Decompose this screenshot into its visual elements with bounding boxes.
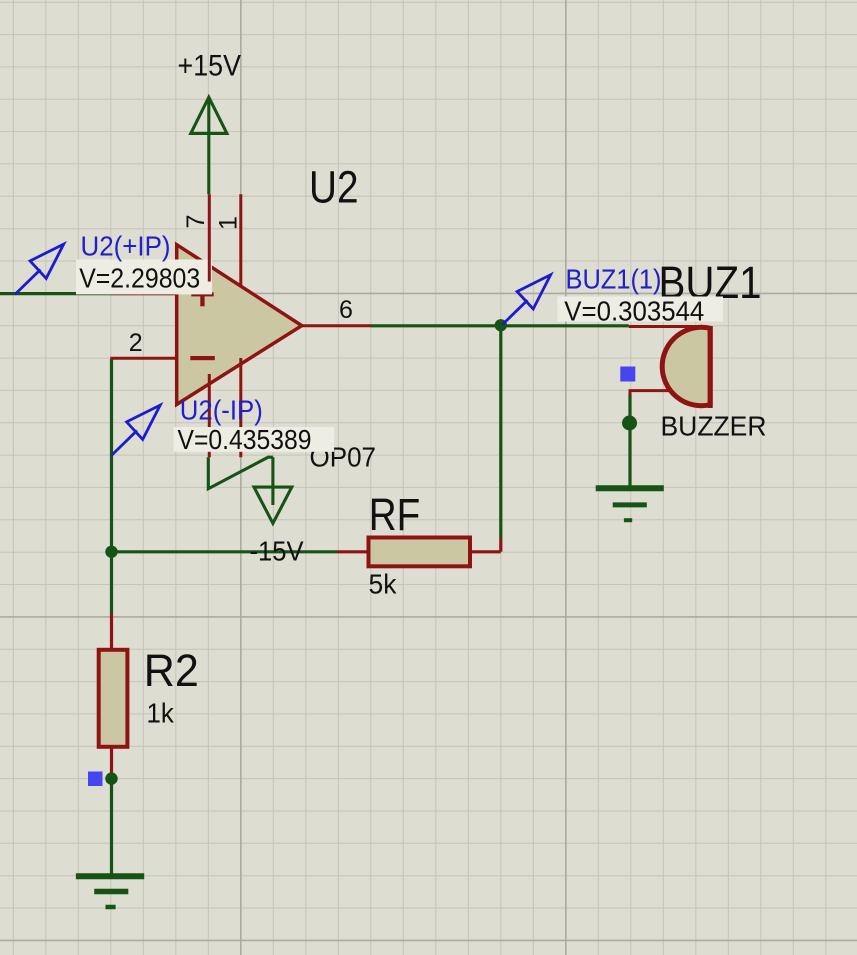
probe label U2(+IP) <box>81 231 171 262</box>
svg-text:2: 2 <box>129 329 143 357</box>
label -15V <box>250 536 304 567</box>
power +15V symbol <box>191 97 227 194</box>
wire R2 top <box>110 552 113 614</box>
value box V=0.435389 <box>174 424 335 455</box>
svg-text:V=2.29803: V=2.29803 <box>79 263 200 294</box>
svg-text:R2: R2 <box>144 645 199 696</box>
value box V=2.29803 <box>76 260 212 295</box>
wire U2 V- pin to -15V zigzag <box>208 457 273 489</box>
svg-text:5k: 5k <box>369 569 398 600</box>
svg-text:V=0.435389: V=0.435389 <box>178 424 312 455</box>
probe U2(-IP) arrow <box>112 405 161 455</box>
probe BUZ1(1) arrow <box>502 275 551 325</box>
svg-text:-15V: -15V <box>250 536 304 567</box>
wire output net <box>371 324 629 327</box>
label R2 <box>144 645 199 696</box>
svg-text:U2: U2 <box>309 161 359 212</box>
svg-text:6: 6 <box>339 296 353 324</box>
svg-text:+15V: +15V <box>178 50 242 83</box>
label OP07 <box>310 442 377 473</box>
svg-text:BUZ1(1): BUZ1(1) <box>566 264 662 295</box>
probe U2(+IP) arrow <box>15 244 64 294</box>
op-amp U2 pin 8 <box>239 358 242 457</box>
node marker blue square buzzer <box>620 367 635 382</box>
pin number 2 <box>129 329 143 357</box>
pin number 6 <box>339 296 353 324</box>
label U2 <box>309 161 359 212</box>
ground under R2 <box>76 876 144 907</box>
svg-text:1k: 1k <box>147 697 175 728</box>
label +15V <box>178 50 242 83</box>
junction node buzzer ground <box>622 416 637 431</box>
op-amp U2 pin 7 <box>208 194 211 281</box>
op-amp U2 pin 1 <box>239 194 242 287</box>
probe label BUZ1(1) <box>566 264 662 295</box>
value BUZZER <box>661 410 767 441</box>
value 5k <box>369 569 398 600</box>
svg-text:1: 1 <box>214 216 242 230</box>
wire input net to U2 non-inverting input <box>0 292 177 295</box>
resistor R2 <box>99 614 128 776</box>
svg-text:U2(-IP): U2(-IP) <box>180 395 263 426</box>
ground under buzzer <box>596 488 664 520</box>
pin number 1 <box>214 216 242 230</box>
op-amp U2 pin 6 output <box>302 324 371 327</box>
op-amp U2 body <box>177 245 302 405</box>
label RF <box>369 489 421 540</box>
value box V=0.303544 <box>558 296 724 327</box>
op-amp plus mark <box>191 278 213 306</box>
pin number 7 <box>182 215 210 229</box>
probe label U2(-IP) <box>180 395 263 426</box>
junction node feedback-left <box>105 546 117 558</box>
wire R2 bottom to ground <box>110 775 113 874</box>
svg-text:V=0.303544: V=0.303544 <box>564 296 704 327</box>
op-amp U2 pin 4 <box>208 374 211 457</box>
wire inverting input vertical <box>110 359 113 552</box>
op-amp U2 pin 2 inverting input <box>110 357 176 360</box>
resistor RF <box>337 538 501 567</box>
buzzer BUZ1 <box>629 326 711 408</box>
svg-text:7: 7 <box>182 215 210 229</box>
label BUZ1 <box>659 257 762 308</box>
wire buzzer pin2 to ground <box>628 394 631 486</box>
svg-text:BUZZER: BUZZER <box>661 410 767 441</box>
junction node R2 bottom <box>105 772 117 784</box>
power -15V symbol <box>254 457 292 523</box>
svg-text:U2(+IP): U2(+IP) <box>81 231 171 262</box>
op-amp minus mark <box>190 356 215 360</box>
junction node output <box>495 319 507 331</box>
op-amp U2 pin 3 non-inverting input <box>111 292 177 295</box>
node marker blue square R2 bottom <box>88 772 103 787</box>
value 1k <box>147 697 175 728</box>
wire feedback bottom horizontal <box>112 550 338 553</box>
svg-text:RF: RF <box>369 489 421 540</box>
wire feedback vertical <box>499 326 502 538</box>
